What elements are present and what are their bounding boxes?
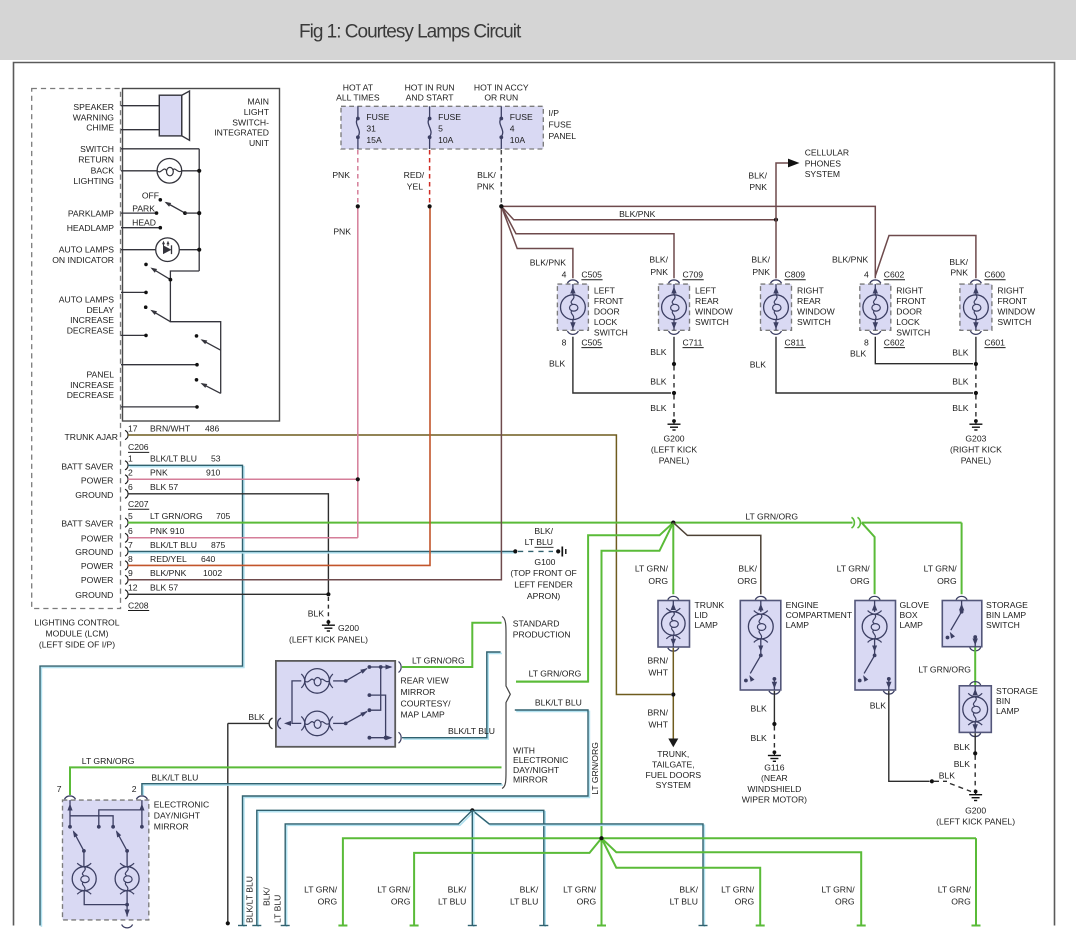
svg-text:BLK/: BLK/ <box>679 884 698 894</box>
svg-text:DOOR: DOOR <box>594 307 620 317</box>
svg-text:BLK/LT BLU: BLK/LT BLU <box>448 726 495 736</box>
svg-text:CHIME: CHIME <box>86 123 114 133</box>
svg-text:INCREASE: INCREASE <box>70 315 114 325</box>
svg-text:GROUND: GROUND <box>75 590 113 600</box>
svg-text:LT GRN/: LT GRN/ <box>377 884 411 894</box>
svg-text:5: 5 <box>438 124 443 134</box>
svg-text:STANDARD: STANDARD <box>513 618 560 628</box>
svg-text:BLK/PNK: BLK/PNK <box>832 255 869 265</box>
svg-text:LOCK: LOCK <box>896 317 920 327</box>
svg-text:PANEL: PANEL <box>86 370 114 380</box>
auto lamps delay selector <box>144 263 148 267</box>
svg-text:ORG: ORG <box>648 576 668 586</box>
speaker warning chime <box>121 105 159 107</box>
svg-text:31: 31 <box>366 124 376 134</box>
svg-text:BRN/WHT: BRN/WHT <box>150 423 191 433</box>
svg-text:BLK: BLK <box>650 347 667 357</box>
wire LT GRN/ORG drop to trunk lid lamp <box>672 523 674 595</box>
svg-text:DAY/NIGHT: DAY/NIGHT <box>154 810 201 820</box>
svg-text:BLK/: BLK/ <box>949 257 968 267</box>
svg-text:HEAD: HEAD <box>132 218 156 228</box>
svg-text:RED/YEL: RED/YEL <box>150 554 187 564</box>
svg-text:LAMP: LAMP <box>900 620 924 630</box>
svg-text:17: 17 <box>128 423 138 433</box>
svg-text:12: 12 <box>128 583 138 593</box>
svg-text:BLK: BLK <box>952 403 969 413</box>
wire BLK/LT BLU option out <box>244 711 590 927</box>
svg-text:LT GRN/: LT GRN/ <box>821 884 855 894</box>
svg-text:FRONT: FRONT <box>594 296 624 306</box>
svg-text:2: 2 <box>128 468 133 478</box>
svg-text:LT GRN/: LT GRN/ <box>635 564 669 574</box>
panel increase decrease selector <box>195 334 199 338</box>
BLK/LT BLU straight down <box>473 812 475 927</box>
ground G116 near windshield wiper motor <box>773 750 777 754</box>
svg-text:ORG: ORG <box>835 896 855 906</box>
svg-text:BLK: BLK <box>650 377 667 387</box>
svg-text:LID: LID <box>695 610 708 620</box>
svg-text:MAP LAMP: MAP LAMP <box>401 710 446 720</box>
wire BLK from C505 <box>573 337 671 393</box>
svg-text:WINDOW: WINDOW <box>695 307 734 317</box>
wire BRN/WHT below trunk lamp <box>672 648 674 739</box>
svg-text:BLK: BLK <box>650 403 667 413</box>
ground G203 (right kick panel) <box>974 419 978 423</box>
wire BLK/LT BLU from mirror <box>403 653 502 739</box>
svg-text:G100: G100 <box>534 557 555 567</box>
svg-text:10A: 10A <box>510 135 526 145</box>
svg-text:C206: C206 <box>128 442 149 452</box>
fuse 31 15A <box>357 106 359 118</box>
svg-text:9: 9 <box>128 568 133 578</box>
selector bus <box>170 271 220 393</box>
svg-text:LAMP: LAMP <box>996 706 1020 716</box>
svg-text:WARNING: WARNING <box>73 112 115 122</box>
svg-text:BLK: BLK <box>939 771 956 781</box>
wire BLK/PNK 1002 <box>128 208 501 580</box>
svg-text:POWER: POWER <box>81 534 113 544</box>
svg-text:SWITCH: SWITCH <box>986 620 1020 630</box>
svg-text:PNK: PNK <box>150 468 168 478</box>
svg-text:1002: 1002 <box>203 568 222 578</box>
svg-text:LEFT: LEFT <box>594 286 616 296</box>
svg-text:486: 486 <box>205 423 220 433</box>
svg-text:(TOP FRONT OF: (TOP FRONT OF <box>510 568 576 578</box>
svg-text:ELECTRONIC: ELECTRONIC <box>154 799 209 809</box>
wire LT GRN/ORG main to right <box>673 522 961 524</box>
svg-text:BLK: BLK <box>751 733 768 743</box>
svg-text:SWITCH: SWITCH <box>695 317 729 327</box>
wire LT GRN/ORG to electronic mirror <box>70 767 502 795</box>
svg-text:8: 8 <box>128 554 133 564</box>
svg-text:(LEFT KICK: (LEFT KICK <box>651 445 697 455</box>
switch right front door lock (C602) <box>860 284 891 330</box>
svg-text:4: 4 <box>864 270 869 280</box>
ground G200 (left kick panel) under switches <box>672 419 676 423</box>
svg-text:WHT: WHT <box>648 668 668 678</box>
svg-text:SWITCH: SWITCH <box>80 144 114 154</box>
svg-text:FRONT: FRONT <box>896 296 926 306</box>
svg-text:LEFT: LEFT <box>695 286 717 296</box>
fuse 5 10A <box>429 106 431 118</box>
svg-text:(NEAR: (NEAR <box>761 773 788 783</box>
svg-text:BIN LAMP: BIN LAMP <box>986 610 1026 620</box>
svg-text:WINDOW: WINDOW <box>997 307 1036 317</box>
wire LT GRN/ORG drop to storage bin lamp switch <box>961 523 963 595</box>
wire LT GRN/ORG to storage bin lamp <box>974 648 976 686</box>
wire PNK 910 pin2 <box>128 478 356 480</box>
svg-text:910: 910 <box>206 468 221 478</box>
mirror lamp 1 <box>305 669 330 694</box>
svg-text:875: 875 <box>211 540 226 550</box>
svg-text:I/P: I/P <box>549 108 560 118</box>
svg-text:LOCK: LOCK <box>594 317 618 327</box>
svg-text:RED/: RED/ <box>404 170 425 180</box>
svg-text:BLK/PNK: BLK/PNK <box>150 568 187 578</box>
splice G100 <box>513 549 517 553</box>
svg-text:RIGHT: RIGHT <box>797 286 824 296</box>
svg-text:BLK/LT BLU: BLK/LT BLU <box>245 876 255 923</box>
auto lamps on indicator LED <box>121 249 156 251</box>
svg-text:FUSE: FUSE <box>438 112 461 122</box>
svg-text:PARKLAMP: PARKLAMP <box>68 209 114 219</box>
svg-text:BLK: BLK <box>952 348 969 358</box>
svg-text:BLK/LT BLU: BLK/LT BLU <box>150 454 197 464</box>
svg-text:ORG: ORG <box>937 576 957 586</box>
svg-text:SWITCH: SWITCH <box>797 317 831 327</box>
ground G200 (left kick panel) right <box>974 790 978 794</box>
wire RED/YEL from fuse 5 <box>429 150 431 205</box>
svg-text:HOT IN RUN: HOT IN RUN <box>405 82 455 92</box>
internal bus wire <box>198 149 200 271</box>
svg-text:OR RUN: OR RUN <box>484 93 518 103</box>
svg-text:REAR VIEW: REAR VIEW <box>401 676 450 686</box>
svg-text:10A: 10A <box>438 135 454 145</box>
svg-text:REAR: REAR <box>797 296 821 306</box>
svg-text:C601: C601 <box>984 337 1005 347</box>
svg-text:640: 640 <box>201 554 216 564</box>
svg-text:BLK: BLK <box>954 742 971 752</box>
LT GRN/ORG junction node <box>516 523 673 682</box>
svg-text:BLK/LT BLU: BLK/LT BLU <box>535 698 582 708</box>
ground lead to G200 below LCM <box>327 597 329 621</box>
ground G200 (left kick panel) <box>327 620 331 624</box>
svg-text:ENGINE: ENGINE <box>786 600 819 610</box>
svg-text:2: 2 <box>132 784 137 794</box>
svg-text:COURTESY/: COURTESY/ <box>401 698 452 708</box>
trunk lid lamp <box>668 596 679 599</box>
svg-text:LIGHTING: LIGHTING <box>73 176 114 186</box>
svg-text:LT GRN/: LT GRN/ <box>938 884 972 894</box>
svg-text:G200: G200 <box>338 623 359 633</box>
svg-text:LT GRN/ORG: LT GRN/ORG <box>529 669 582 679</box>
svg-text:TAILGATE,: TAILGATE, <box>652 759 695 769</box>
svg-text:LAMP: LAMP <box>695 620 719 630</box>
switch return wire <box>121 148 199 150</box>
svg-text:PRODUCTION: PRODUCTION <box>513 629 571 639</box>
svg-text:HOT IN ACCY: HOT IN ACCY <box>474 82 529 92</box>
svg-text:WIPER MOTOR): WIPER MOTOR) <box>742 795 807 805</box>
svg-text:STORAGE: STORAGE <box>986 600 1028 610</box>
mirror internal switches <box>69 800 71 827</box>
svg-text:BLK/: BLK/ <box>751 255 770 265</box>
svg-text:RIGHT: RIGHT <box>896 286 923 296</box>
engine compartment lamp <box>755 596 766 599</box>
svg-text:FUSE: FUSE <box>549 120 572 130</box>
svg-text:ON INDICATOR: ON INDICATOR <box>52 255 114 265</box>
svg-text:BLK/LT BLU: BLK/LT BLU <box>150 540 197 550</box>
svg-text:LT GRN/: LT GRN/ <box>563 884 597 894</box>
svg-text:OFF: OFF <box>142 191 159 201</box>
svg-text:LT BLU: LT BLU <box>273 895 283 923</box>
wire BLK below engine lamp to G116 <box>773 691 775 724</box>
svg-text:MAIN: MAIN <box>248 97 269 107</box>
svg-text:BLK/: BLK/ <box>448 884 467 894</box>
svg-text:FUSE: FUSE <box>510 112 533 122</box>
header title bar <box>0 0 1076 60</box>
svg-text:6: 6 <box>128 482 133 492</box>
svg-text:BIN: BIN <box>996 696 1010 706</box>
LCM pin 7 row <box>125 547 128 556</box>
svg-text:BLK: BLK <box>751 704 768 714</box>
bottom junction LT GRN/ORG <box>343 838 602 925</box>
svg-text:BLK/: BLK/ <box>649 255 668 265</box>
svg-text:PHONES: PHONES <box>805 158 842 168</box>
main light switch box U1 <box>123 89 280 422</box>
svg-text:Fig 1: Courtesy Lamps Circuit: Fig 1: Courtesy Lamps Circuit <box>299 21 522 42</box>
svg-text:FRONT: FRONT <box>997 296 1027 306</box>
svg-text:DOOR: DOOR <box>896 307 922 317</box>
svg-text:BLK: BLK <box>750 360 767 370</box>
wire BLK/LT BLU 875 to G100 <box>129 552 516 554</box>
svg-text:SPEAKER: SPEAKER <box>73 102 114 112</box>
svg-text:REAR: REAR <box>695 296 719 306</box>
svg-text:BLK/PNK: BLK/PNK <box>530 258 567 268</box>
svg-text:BLK/: BLK/ <box>262 887 272 906</box>
svg-text:53: 53 <box>211 454 221 464</box>
svg-text:AUTO LAMPS: AUTO LAMPS <box>59 245 115 255</box>
svg-text:705: 705 <box>216 511 231 521</box>
LCM pin 1 row <box>125 461 128 470</box>
switch right front window (C600) <box>960 284 992 330</box>
svg-text:ELECTRONIC: ELECTRONIC <box>513 755 568 765</box>
svg-text:BLK 57: BLK 57 <box>150 482 178 492</box>
wire BLK from C602 pin 8 <box>875 337 973 364</box>
wire RED/YEL 640 <box>128 208 430 566</box>
svg-text:WINDSHIELD: WINDSHIELD <box>747 784 801 794</box>
svg-text:BOX: BOX <box>900 610 918 620</box>
svg-text:BLK: BLK <box>549 359 566 369</box>
storage bin lamp <box>970 682 981 685</box>
svg-text:C600: C600 <box>984 270 1005 280</box>
LCM pin 12 row <box>125 590 128 599</box>
svg-text:LT GRN/ORG: LT GRN/ORG <box>150 511 203 521</box>
svg-text:PNK: PNK <box>650 267 668 277</box>
svg-text:YEL: YEL <box>407 182 423 192</box>
svg-text:LT GRN/: LT GRN/ <box>304 884 338 894</box>
svg-text:DELAY: DELAY <box>86 305 114 315</box>
svg-text:HEADLAMP: HEADLAMP <box>67 223 115 233</box>
switch left front door lock (C505) <box>557 284 588 330</box>
svg-text:WINDOW: WINDOW <box>797 307 836 317</box>
mirror internal wiring <box>292 681 301 724</box>
svg-text:ORG: ORG <box>850 576 870 586</box>
svg-text:TRUNK AJAR: TRUNK AJAR <box>65 432 118 442</box>
wire BLK/PNK from fuse 4 <box>500 150 502 205</box>
svg-text:4: 4 <box>510 124 515 134</box>
svg-text:LT GRN/: LT GRN/ <box>924 564 958 574</box>
svg-text:DECREASE: DECREASE <box>67 325 115 335</box>
wire BLK 57 pin12 <box>128 593 328 595</box>
svg-text:ORG: ORG <box>735 896 755 906</box>
svg-text:PNK: PNK <box>950 267 968 277</box>
svg-text:GLOVE: GLOVE <box>900 600 930 610</box>
svg-text:SYSTEM: SYSTEM <box>656 780 691 790</box>
svg-text:BLK: BLK <box>870 701 887 711</box>
svg-text:PNK: PNK <box>477 182 495 192</box>
svg-text:LAMP: LAMP <box>786 620 810 630</box>
svg-text:POWER: POWER <box>81 476 113 486</box>
svg-text:MIRROR: MIRROR <box>513 775 548 785</box>
svg-text:LT GRN/ORG: LT GRN/ORG <box>745 511 798 521</box>
wire BLK chain to G200 <box>673 337 675 364</box>
svg-text:ORG: ORG <box>577 896 597 906</box>
svg-text:7: 7 <box>57 784 62 794</box>
wire LT GRN/ORG drop to glove box lamp <box>862 523 875 595</box>
svg-text:BLK: BLK <box>954 759 971 769</box>
svg-text:BLK 57: BLK 57 <box>150 583 178 593</box>
svg-text:PNK: PNK <box>332 170 350 180</box>
back lighting lamp <box>121 170 157 172</box>
svg-text:1: 1 <box>128 454 133 464</box>
svg-text:POWER: POWER <box>81 575 113 585</box>
svg-text:BLK: BLK <box>952 377 969 387</box>
electronic day/night mirror box <box>63 800 149 920</box>
BLK/PNK feeder bus <box>501 206 875 278</box>
svg-text:8: 8 <box>562 337 567 347</box>
node on BLK/PNK at C809 drop <box>774 218 778 222</box>
BLK/LT BLU branch left <box>287 812 474 927</box>
fuse 4 10A <box>500 106 502 118</box>
svg-text:6: 6 <box>128 526 133 536</box>
svg-text:C809: C809 <box>785 270 806 280</box>
svg-text:PARK: PARK <box>132 204 155 214</box>
svg-text:G116: G116 <box>764 763 785 773</box>
svg-text:G200: G200 <box>965 805 986 815</box>
svg-text:MIRROR: MIRROR <box>401 687 436 697</box>
inline connector on LT GRN/ORG <box>853 518 862 529</box>
svg-text:C208: C208 <box>128 600 149 610</box>
wire BLK below storage bin lamp to G200 <box>974 733 976 753</box>
svg-text:GROUND: GROUND <box>75 490 113 500</box>
I/P fuse panel box <box>341 106 543 149</box>
rear view mirror courtesy map lamp box <box>276 661 395 747</box>
svg-text:PNK: PNK <box>333 226 351 236</box>
wire end ticks <box>238 925 247 927</box>
svg-text:SWITCH: SWITCH <box>997 317 1031 327</box>
switch right rear window (C809) <box>761 284 792 330</box>
svg-text:BLK/LT BLU: BLK/LT BLU <box>151 773 198 783</box>
svg-text:FUEL DOORS: FUEL DOORS <box>646 770 702 780</box>
svg-text:DECREASE: DECREASE <box>67 390 115 400</box>
svg-text:7: 7 <box>128 540 133 550</box>
svg-text:SYSTEM: SYSTEM <box>805 169 840 179</box>
svg-text:POWER: POWER <box>81 561 113 571</box>
wire BLK chain to G203 <box>975 337 977 364</box>
svg-text:G200: G200 <box>663 433 684 443</box>
svg-text:BRN/: BRN/ <box>647 708 668 718</box>
wire BLK/ORG to engine compartment lamp <box>673 523 761 595</box>
svg-text:TRUNK: TRUNK <box>695 600 725 610</box>
wire BLK below glove box lamp <box>889 691 930 782</box>
svg-text:BLK/: BLK/ <box>738 564 757 574</box>
svg-text:15A: 15A <box>366 135 382 145</box>
svg-text:LT BLU: LT BLU <box>525 537 553 547</box>
svg-text:PANEL): PANEL) <box>659 456 690 466</box>
wire BLK 57 pin6 <box>128 494 328 595</box>
bottom junction BLK/LT BLU <box>258 812 545 927</box>
lighting control module (LCM) dashed enclosure <box>32 89 121 609</box>
branch C602 to C600 <box>875 236 976 279</box>
svg-text:GROUND: GROUND <box>75 547 113 557</box>
svg-text:UNIT: UNIT <box>249 138 270 148</box>
svg-text:LIGHTING CONTROL: LIGHTING CONTROL <box>35 618 120 628</box>
svg-text:G203: G203 <box>965 433 986 443</box>
svg-text:C709: C709 <box>683 270 704 280</box>
svg-text:BACK: BACK <box>91 166 115 176</box>
svg-text:WHT: WHT <box>648 719 668 729</box>
svg-text:5: 5 <box>128 511 133 521</box>
svg-text:BLK/: BLK/ <box>534 526 553 536</box>
svg-text:BLK/: BLK/ <box>477 170 496 180</box>
wire BLK from C811 <box>776 337 973 393</box>
svg-text:C505: C505 <box>581 270 602 280</box>
svg-text:(LEFT SIDE OF I/P): (LEFT SIDE OF I/P) <box>39 640 115 650</box>
svg-text:LT GRN/: LT GRN/ <box>837 564 871 574</box>
glove box lamp <box>869 596 880 599</box>
wire PNK from fuse 31 <box>357 150 359 205</box>
svg-text:ORG: ORG <box>951 896 971 906</box>
BLK feed into mirror <box>228 722 269 724</box>
svg-text:ALL TIMES: ALL TIMES <box>336 93 380 103</box>
svg-text:SWITCH: SWITCH <box>594 328 628 338</box>
storage bin lamp switch <box>956 596 967 599</box>
svg-text:ORG: ORG <box>318 896 338 906</box>
wire PNK 910 pin6b <box>128 537 358 539</box>
LCM pin 6b row <box>125 533 128 542</box>
svg-text:FUSE: FUSE <box>366 112 389 122</box>
svg-text:C602: C602 <box>884 270 905 280</box>
LCM pin 8 row <box>125 561 128 570</box>
svg-text:LT BLU: LT BLU <box>510 896 538 906</box>
svg-text:WITH: WITH <box>513 745 535 755</box>
svg-text:COMPARTMENT: COMPARTMENT <box>786 610 853 620</box>
svg-text:DAY/NIGHT: DAY/NIGHT <box>513 765 560 775</box>
svg-text:ORG: ORG <box>737 576 757 586</box>
svg-text:PANEL): PANEL) <box>961 456 992 466</box>
svg-text:(LEFT KICK PANEL): (LEFT KICK PANEL) <box>936 817 1015 827</box>
wire LT GRN/ORG 705 <box>128 522 672 524</box>
LCM pin 17 trunk ajar row <box>125 430 128 439</box>
svg-text:C811: C811 <box>785 337 805 347</box>
svg-text:4: 4 <box>562 270 567 280</box>
svg-text:LT GRN/ORG: LT GRN/ORG <box>918 664 971 674</box>
svg-text:LIGHT: LIGHT <box>244 107 270 117</box>
wire BLK/LT BLU 53 <box>41 467 244 927</box>
svg-text:LT GRN/: LT GRN/ <box>721 884 755 894</box>
svg-text:(LEFT KICK PANEL): (LEFT KICK PANEL) <box>289 634 368 644</box>
svg-text:BLK: BLK <box>850 349 867 359</box>
